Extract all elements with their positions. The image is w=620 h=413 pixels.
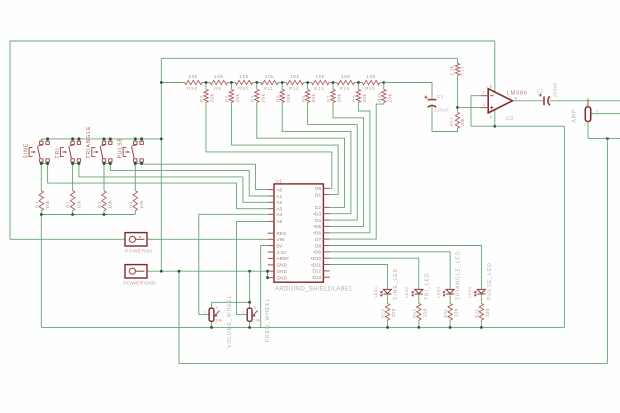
wire button 4 output route to A0 [142,164,268,190]
wire GND left riser to button resistors [40,215,42,328]
wire D10 to TRI_LED [330,258,419,289]
resistor R15 10k [362,74,379,92]
wire ladder tap 5 to D5 [330,102,364,226]
svg-text:R13: R13 [314,86,324,92]
wire 5V pin down to bottom bus [261,246,268,328]
svg-text:C2: C2 [537,88,544,94]
wire jack tip out [593,113,620,115]
pin D3 [313,212,329,217]
wire LED to resistor R26 [480,294,482,304]
svg-text:D12: D12 [312,269,321,274]
svg-text:5V: 5V [277,243,284,248]
svg-text:R5: R5 [275,95,280,102]
svg-text:U1: U1 [276,178,283,184]
svg-text:2: 2 [596,110,598,114]
wire button 3 output route to A1 [110,164,267,197]
wire button 3 to pull resistor [103,164,105,191]
resistor R13 10k [312,74,329,92]
pin AREF [268,256,290,261]
svg-text:2: 2 [483,91,485,95]
pushbutton S4 PULSE [118,137,144,163]
svg-text:3: 3 [584,122,586,126]
junction ladder tap 2 [255,81,258,84]
resistor R24 20k [185,74,203,92]
svg-text:A1: A1 [277,194,283,199]
IC U1 ARDUINO_SHIELDLABEL [274,178,353,292]
junction ladder tap 0 [205,81,208,84]
resistor R6 20k (ladder 2R) [301,83,316,103]
junction ladder tap 3 [281,81,284,84]
junction SINE_LED resistor to GND bus [386,326,389,329]
svg-text:D4: D4 [315,218,321,223]
svg-text:LM386: LM386 [507,91,528,97]
svg-text:20k: 20k [210,93,215,102]
svg-text:R15: R15 [365,86,375,92]
junction ladder tap 1 [230,81,233,84]
wire ladder tap 0 to D0 [206,102,332,188]
pin D12 [312,269,329,274]
pin A5 [268,219,283,224]
svg-text:220: 220 [454,308,459,317]
wire ladder bus segments [161,82,184,84]
pin A0 [268,187,283,192]
svg-text:10k: 10k [341,74,351,80]
svg-text:10k: 10k [139,200,144,209]
svg-text:R14: R14 [340,86,350,92]
pin D10 [311,256,330,261]
pin D8 [315,243,330,248]
wire GND right vertical [563,126,565,327]
capacitor C2 250uF [537,82,559,106]
svg-text:R24: R24 [187,86,197,92]
svg-text:C1: C1 [437,94,444,100]
LED TRIANGLE_LED [437,250,462,300]
wire button resistor bottom bus [41,214,135,216]
wire opamp ground rail [471,125,564,127]
svg-text:•D9: •D9 [313,250,321,255]
svg-text:R7: R7 [326,95,331,102]
svg-text:LED2: LED2 [405,286,409,297]
wire node A to opamp +in [458,106,481,108]
junction pot tops [248,301,251,304]
svg-text:R21: R21 [449,117,454,127]
svg-text:D8: D8 [315,243,321,248]
wire ladder tap 3 to D3 [282,102,351,213]
pin D2 [315,205,330,210]
svg-text:R2: R2 [199,95,204,102]
junction ladder tap 7 [382,81,385,84]
svg-text:D0: D0 [315,186,321,191]
svg-text:10k: 10k [76,200,81,209]
pin D13 [312,275,329,280]
svg-text:D13: D13 [312,275,321,280]
wire opamp V+ from rail [494,41,496,92]
resistor R26 220 [474,303,490,327]
junction GND bus x161 [160,270,163,273]
svg-text:R12: R12 [289,86,299,92]
LED TRI_LED [405,272,430,300]
svg-text:AREF: AREF [277,256,290,261]
svg-text:•D5: •D5 [313,224,321,229]
resistor R2 20k (ladder 2R) [199,83,214,103]
svg-text:SINE_LED: SINE_LED [393,268,399,300]
wire POWERGND to IC GND pins [147,270,268,272]
connector POWER9V [125,233,153,255]
wire opamp -in to ground loop [471,96,480,127]
svg-text:220: 220 [391,308,396,317]
junction button bus to GND vertical [160,138,163,141]
resistor R21 20k [449,112,465,128]
svg-text:R3: R3 [225,95,230,102]
svg-text:R11: R11 [264,86,274,92]
wire pot tops link [212,302,250,308]
svg-text:POWERGND: POWERGND [123,281,156,287]
wire pot2 bottom [249,321,251,327]
svg-text:220: 220 [485,308,490,317]
wire pot1 bottom [211,321,213,327]
resistor R16 220 [381,303,397,327]
pin D9 [313,250,329,255]
svg-text:PULSE: PULSE [118,137,124,158]
junction button 2 pins [77,137,80,140]
wire jack sleeve to GND net [588,138,620,140]
svg-text:10k: 10k [366,74,376,80]
wire button 1 to pull resistor [40,164,42,191]
svg-text:R2: R2 [66,201,71,208]
svg-text:10k: 10k [215,318,222,322]
svg-text:3: 3 [216,306,218,310]
connector AMP audio jack [571,99,598,139]
svg-text:R16: R16 [381,308,386,318]
svg-text:A3: A3 [277,207,283,212]
wire C2 output to right edge [550,100,620,102]
svg-text:•D6: •D6 [313,231,321,236]
pin D7 [315,237,330,242]
pin D6 [313,231,329,236]
junction GND bus x179 [178,270,181,273]
svg-text:3: 3 [483,103,485,107]
junction opamp pin4 [493,125,496,128]
wire R19 column [457,58,459,63]
potentiometer R5 10k [204,306,222,323]
potentiometer R6 10k [242,306,260,323]
svg-text:10k: 10k [265,74,275,80]
wire pot2 wiper to A5 [237,221,268,314]
svg-text:20k: 20k [337,93,342,102]
svg-text:A5: A5 [277,219,283,224]
svg-text:R25: R25 [443,308,448,318]
svg-text:20k: 20k [188,74,198,80]
svg-text:•D10: •D10 [311,256,322,261]
capacitor C1 220uF [424,94,449,114]
svg-text:20k: 20k [260,93,265,102]
svg-text:FREQ_WHEEL: FREQ_WHEEL [265,298,271,342]
wire opamp output to C2 [512,100,543,102]
svg-text:10k: 10k [253,318,260,322]
pin VIN [268,237,285,242]
op-amp U1 LM386 [480,84,527,121]
svg-text:220uF: 220uF [434,108,450,114]
pin A4 [268,212,283,217]
wire ladder tap 2 to D2 [257,102,345,207]
svg-text:GND: GND [277,275,288,280]
wire GND bottom bus [41,326,564,328]
pin D1 [315,192,330,197]
svg-text:220: 220 [422,308,427,317]
svg-text:1: 1 [585,103,587,107]
wire ladder tap 4 to D4 [308,102,358,220]
svg-text:R26: R26 [474,308,479,318]
wire ladder tap 7 to D7 [330,102,384,239]
pushbutton S3 TRIANGLE [86,125,112,163]
svg-text:A2: A2 [277,200,283,205]
svg-text:TRI_LED: TRI_LED [424,272,430,300]
wire button 2 output route to A2 [79,164,268,203]
svg-text:20k: 20k [286,93,291,102]
LED PULSE_LED [468,262,493,300]
wire C1 bottom to R21 bottom [432,106,458,132]
resistor R7 20k (ladder 2R) [326,83,341,103]
resistor R17 220 [412,303,428,327]
svg-text:PULSE_LED: PULSE_LED [487,262,493,300]
LED SINE_LED [374,268,399,300]
svg-text:GND: GND [277,269,288,274]
svg-text:R8: R8 [352,95,357,102]
junction jack sleeve [606,137,609,140]
junction ladder tap 5 [332,81,335,84]
junction TRI_LED resistor to GND bus [417,326,420,329]
pin 3.3V [268,250,287,255]
svg-text:ARDUINO_SHIELDLABEL: ARDUINO_SHIELDLABEL [275,287,353,293]
wire GND pin tie [267,271,269,277]
svg-text:VIN: VIN [277,237,285,242]
svg-text:R4: R4 [250,95,255,102]
wire D11 to SINE_LED [330,265,388,290]
svg-text:POWER9V: POWER9V [125,249,153,255]
svg-text:3.3V: 3.3V [277,250,288,255]
pin GND [268,269,288,274]
wire D9 to TRIANGLE_LED [330,252,450,290]
svg-text:TRIANGLE_LED: TRIANGLE_LED [456,250,462,300]
resistor R19 2.2k [450,63,465,75]
svg-text:D2: D2 [315,205,321,210]
svg-text:6: 6 [490,84,492,88]
connector POWERGND [123,265,156,287]
pin GND [268,275,288,280]
resistor R8 20k (ladder 2R) [352,83,367,103]
svg-text:4: 4 [490,116,492,120]
resistor R14 10k [337,74,354,92]
junction button 3 pins [109,137,112,140]
svg-text:20k: 20k [460,118,465,127]
pin A1 [268,194,283,199]
resistor R4 20k (ladder 2R) [250,83,265,103]
pin A2 [268,200,283,205]
pin GND [268,263,288,268]
junction GND bus x249 [248,270,251,273]
junction ladder tap 6 [357,81,360,84]
svg-text:10k: 10k [214,74,224,80]
svg-text:TRIANGLE: TRIANGLE [86,125,92,158]
wire button 1 output route to A3 [48,164,268,209]
wire GND upper rail [161,57,457,59]
svg-text:10k: 10k [108,200,113,209]
svg-text:10k: 10k [290,74,300,80]
svg-text:U2: U2 [506,116,514,122]
wire button 2 to pull resistor [72,164,74,191]
svg-text:LED3: LED3 [437,286,441,297]
svg-text:R10: R10 [238,86,248,92]
svg-text:A4: A4 [277,212,283,217]
pin RES [268,231,287,236]
wire opamp pin4 down [494,110,496,127]
pin 5V [268,243,283,248]
wire 9V top rail [10,40,495,42]
pin D4 [315,218,330,223]
resistor R2 10k (pull) [66,191,82,215]
svg-text:2.2k: 2.2k [450,65,455,75]
svg-text:R25: R25 [377,92,382,102]
wire sleeve return down and across [179,139,607,364]
pin D0 [315,186,330,191]
svg-text:R6: R6 [301,95,306,102]
wire button 4 to pull resistor [134,164,136,191]
wire bus to C1 [384,83,432,100]
junction node A (opamp +in) [456,106,459,109]
resistor R10 10k [235,74,252,92]
svg-text:20k: 20k [362,93,367,102]
svg-text:250uF: 250uF [553,82,559,98]
resistor R4 10k (pull) [128,191,144,215]
wire pot2 top from GND bus [249,271,251,308]
svg-text:•D3: •D3 [313,212,321,217]
wire ladder tap 6 to D6 [330,102,370,233]
svg-text:R19: R19 [459,66,464,76]
wire LED to resistor R17 [418,294,420,304]
svg-text:RES: RES [277,231,287,236]
svg-text:D1: D1 [315,192,321,197]
svg-text:20k: 20k [235,93,240,102]
wire 9V to POWER9V jack [10,238,125,240]
svg-text:VOLUME_WHEEL: VOLUME_WHEEL [227,294,233,348]
junction button resistor bus [40,213,43,216]
junction PULSE_LED resistor to GND bus [480,326,483,329]
pin D11 [311,262,330,267]
svg-text:LED4: LED4 [468,286,472,297]
svg-text:20k: 20k [311,93,316,102]
svg-text:TRI: TRI [55,147,61,158]
svg-text:LED1: LED1 [374,286,378,297]
pin A3 [268,207,283,212]
wire ladder tap 1 to D1 [231,102,338,194]
resistor R25 20k (ladder 2R) [377,83,392,103]
svg-text:SINE: SINE [24,143,30,159]
svg-text:A0: A0 [277,187,283,192]
resistor R3 20k (ladder 2R) [225,83,240,103]
resistor R5 20k (ladder 2R) [275,83,290,103]
wire GND left vertical [160,58,162,271]
resistor R12 10k [286,74,303,92]
wire LED to resistor R25 [449,294,451,304]
pushbutton S2 TRI [55,139,81,164]
svg-text:AMP: AMP [571,109,577,123]
svg-text:3: 3 [254,306,256,310]
junction ladder tap 4 [306,81,309,84]
svg-text:R3: R3 [97,201,102,208]
svg-text:R17: R17 [412,308,417,318]
svg-text:D7: D7 [315,237,321,242]
wire POWER9V to VIN pin [147,238,268,240]
resistor R3 10k (pull) [97,191,113,215]
svg-text:•D11: •D11 [311,262,321,267]
wire 9V left border [9,41,11,239]
pushbutton S1 SINE [24,139,50,164]
resistor R25 220 [443,303,459,327]
wire LED to resistor R16 [387,294,389,304]
resistor R11 10k [261,74,278,92]
svg-text:1: 1 [204,310,206,314]
wire pot1 wiper to A4 [199,214,268,314]
svg-text:10k: 10k [316,74,326,80]
resistor R9 10k [210,74,227,92]
junction button 4 pins [140,137,143,140]
svg-text:R9: R9 [214,86,221,92]
wire D8 to PULSE_LED [330,246,482,290]
svg-text:10k: 10k [45,200,50,209]
svg-text:GND: GND [277,263,288,268]
junction button 1 pins [46,137,49,140]
svg-text:R1: R1 [34,201,39,208]
resistor R1 10k (pull) [34,191,50,215]
pin D5 [313,224,329,229]
junction ladder bus left end [160,81,163,84]
svg-text:1: 1 [242,310,244,314]
svg-text:5: 5 [515,96,517,100]
wire button top bus [41,138,161,140]
svg-text:20k: 20k [387,93,392,102]
svg-text:10k: 10k [239,74,249,80]
svg-text:R4: R4 [128,201,133,208]
junction TRIANGLE_LED resistor to GND bus [449,326,452,329]
